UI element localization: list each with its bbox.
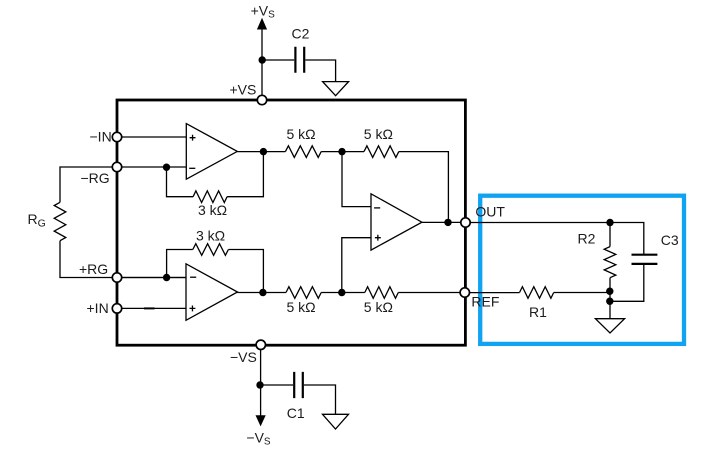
resistor R2 bbox=[604, 247, 616, 278]
svg-text:5 kΩ: 5 kΩ bbox=[364, 126, 393, 142]
node supply top junction bbox=[259, 56, 266, 63]
highlight box (blue) bbox=[480, 196, 684, 344]
wire A1 feedback loop bbox=[167, 152, 264, 197]
op-amp A1 (top) bbox=[186, 124, 237, 180]
pin OUT bbox=[461, 218, 470, 227]
node bottom middle junction bbox=[338, 289, 345, 296]
wire A1 output row bbox=[237, 152, 448, 223]
svg-text:5 kΩ: 5 kΩ bbox=[287, 299, 316, 315]
pin -IN bbox=[112, 132, 121, 141]
svg-text:3 kΩ: 3 kΩ bbox=[196, 227, 225, 243]
capacitor C2 bbox=[295, 47, 304, 73]
svg-text:+VS: +VS bbox=[230, 81, 257, 97]
svg-text:5 kΩ: 5 kΩ bbox=[364, 299, 393, 315]
wire +Vs stem to +VS pin bbox=[261, 29, 263, 97]
node A2 inverting input junction bbox=[163, 274, 170, 281]
wire junction to C1 bbox=[260, 384, 293, 386]
A2 minus sign bbox=[190, 276, 196, 278]
node C3 return junction bbox=[606, 298, 613, 305]
wire +IN to op-amp A2 bbox=[117, 307, 186, 309]
resistor RG bbox=[54, 202, 66, 240]
supply arrow +Vs bbox=[257, 18, 267, 30]
capacitor C3 bbox=[632, 255, 658, 264]
svg-text:5 kΩ: 5 kΩ bbox=[287, 126, 316, 142]
wire +RG row to op-amp A2 bbox=[117, 277, 186, 279]
wire junction to C2 bbox=[262, 59, 294, 61]
resistor 5 kOhm (top left) bbox=[285, 146, 321, 158]
node A1 inverting input junction bbox=[163, 164, 170, 171]
svg-text:C1: C1 bbox=[287, 405, 305, 421]
svg-text:+VS: +VS bbox=[251, 2, 276, 20]
svg-text:−VS: −VS bbox=[246, 429, 271, 447]
wire -VS pin to supply arrow bbox=[260, 345, 262, 416]
wire +IN dash artifact bbox=[144, 307, 155, 309]
wire to A3 inverting input bbox=[342, 152, 371, 207]
svg-text:−IN: −IN bbox=[90, 129, 112, 145]
svg-text:R1: R1 bbox=[529, 304, 547, 320]
svg-text:+RG: +RG bbox=[79, 261, 108, 277]
pin +VS bbox=[257, 95, 266, 104]
wire A2 feedback loop bbox=[167, 250, 264, 293]
node A3 output bbox=[444, 219, 451, 226]
svg-text:R2: R2 bbox=[578, 230, 596, 246]
node R2 top bbox=[606, 219, 613, 226]
wire -IN to op-amp A1 bbox=[117, 136, 186, 138]
node A1 output bbox=[260, 148, 267, 155]
resistor 5 kOhm (bottom left) bbox=[286, 287, 321, 299]
node R1 R2 junction bbox=[606, 288, 613, 295]
node A2 output bbox=[259, 289, 266, 296]
op-amp A3 (output) bbox=[371, 194, 422, 250]
svg-text:C2: C2 bbox=[292, 26, 310, 42]
A2 plus sign bbox=[190, 305, 196, 311]
wire OUT row to C3 branch bbox=[470, 223, 644, 255]
resistor 3 kOhm (bottom feedback) bbox=[193, 244, 229, 256]
IC boundary box U1 (in-amp) bbox=[117, 100, 465, 345]
op-amp A2 (bottom) bbox=[186, 264, 238, 321]
A3 minus sign bbox=[374, 207, 380, 209]
wire A3 output to OUT pin bbox=[422, 221, 466, 223]
wire C2 to ground bbox=[305, 60, 335, 82]
supply arrow -Vs bbox=[256, 415, 266, 426]
resistor 5 kOhm (top right, feedback) bbox=[364, 146, 399, 158]
svg-text:RG: RG bbox=[28, 211, 46, 230]
resistor R1 bbox=[520, 287, 554, 299]
svg-text:OUT: OUT bbox=[475, 203, 505, 219]
pin +RG bbox=[112, 273, 121, 282]
pin +IN bbox=[112, 304, 121, 313]
wire to A3 non-inverting input bbox=[342, 238, 371, 293]
wire C1 to ground bbox=[304, 385, 336, 414]
svg-text:+IN: +IN bbox=[87, 300, 109, 316]
pin REF bbox=[460, 288, 469, 297]
wire R2 leads bbox=[609, 223, 611, 302]
svg-text:−RG: −RG bbox=[81, 170, 110, 186]
wire -RG row and external RG loop bbox=[60, 167, 186, 278]
ground (blue box) bbox=[595, 319, 624, 333]
node supply bottom junction bbox=[256, 381, 263, 388]
svg-text:−VS: −VS bbox=[230, 349, 257, 365]
resistor 5 kOhm (bottom right) bbox=[365, 287, 399, 299]
wire C3 bottom return bbox=[610, 265, 644, 301]
A1 plus sign bbox=[190, 135, 196, 141]
wire REF row through R1 bbox=[470, 292, 611, 294]
ground (top, for C2) bbox=[323, 82, 349, 96]
pin -RG bbox=[112, 162, 121, 171]
resistor 3 kOhm (top feedback) bbox=[193, 191, 227, 203]
capacitor C1 bbox=[294, 372, 303, 398]
wire A2 output row bbox=[238, 292, 465, 294]
A1 minus sign bbox=[189, 167, 195, 169]
svg-text:C3: C3 bbox=[661, 232, 679, 248]
node top middle junction bbox=[338, 148, 345, 155]
svg-text:REF: REF bbox=[471, 294, 499, 310]
svg-text:3 kΩ: 3 kΩ bbox=[198, 202, 227, 218]
A3 plus sign bbox=[375, 235, 381, 241]
wire junction to ground stem bbox=[609, 301, 611, 318]
ground (bottom, for C1) bbox=[323, 414, 349, 429]
pin -VS bbox=[256, 340, 265, 349]
